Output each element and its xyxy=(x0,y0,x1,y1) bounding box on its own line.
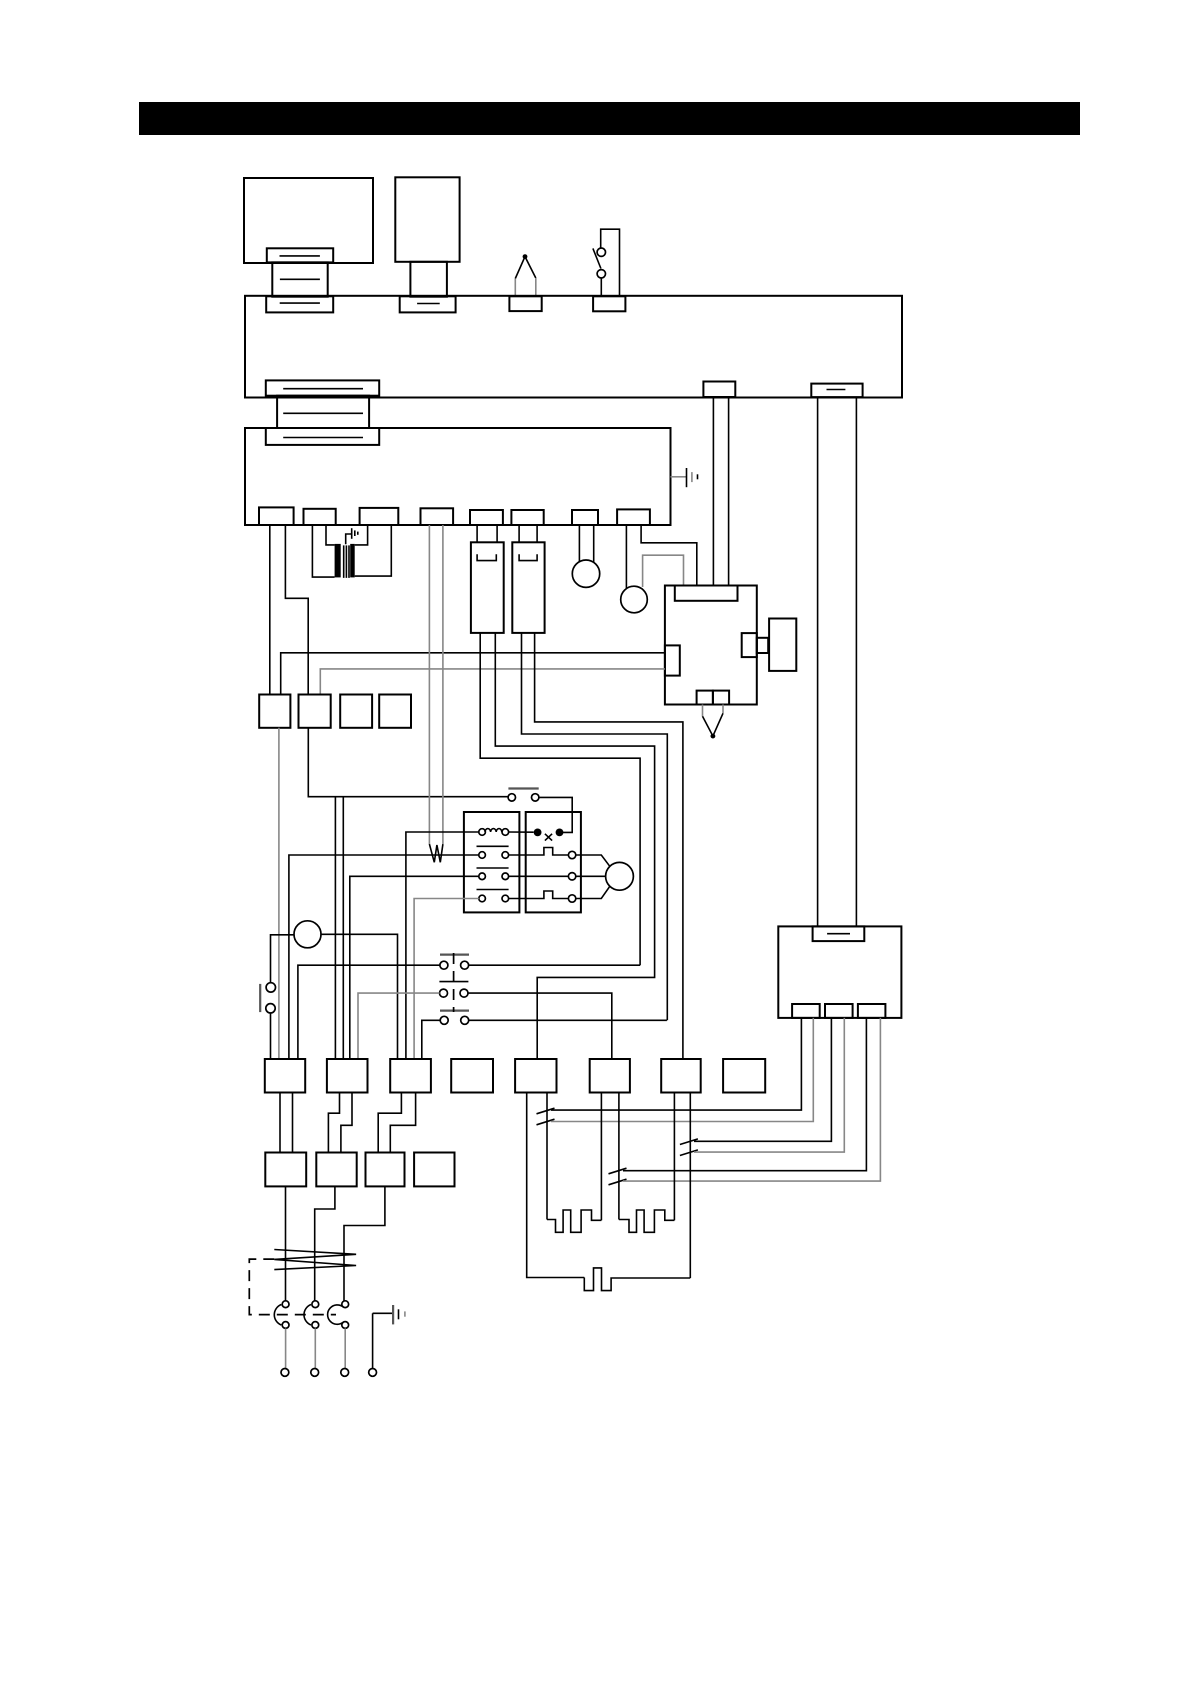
control box RB xyxy=(778,926,901,1018)
wire M3 to B3 a xyxy=(378,1093,401,1153)
harness1 bottom tab A xyxy=(703,382,735,398)
terminal box B4 xyxy=(414,1153,454,1187)
comb B xyxy=(619,1210,675,1232)
wire M6 right through splice s3 to comb B xyxy=(618,1093,620,1220)
contactor box K2 xyxy=(509,812,581,912)
wire B3 to breaker pole3 xyxy=(344,1186,385,1300)
terminal box M6 xyxy=(590,1059,630,1093)
fuse F1 xyxy=(471,525,504,633)
connector CN-B stem and tab xyxy=(400,262,456,313)
splice s3 xyxy=(609,1018,881,1185)
wire branch to M2 b xyxy=(342,797,344,1059)
wire J1 to M1 xyxy=(278,728,280,1059)
wire M5 left to comb C xyxy=(527,1093,585,1278)
terminal box M3 xyxy=(390,1059,431,1093)
terminal box B1 xyxy=(265,1153,306,1187)
comb A xyxy=(547,1210,601,1232)
breaker thermal zigzag xyxy=(274,1250,356,1270)
junction box J3 xyxy=(340,695,372,728)
wire row2 to M2 xyxy=(350,876,479,1059)
box B: control unit xyxy=(395,177,459,261)
connector CN-C stack between harness boxes xyxy=(266,380,379,445)
harness1 bottom tab B xyxy=(811,384,862,398)
box A: display unit xyxy=(244,178,373,263)
wire M1 to B1 a xyxy=(279,1093,281,1153)
terminal box M2 xyxy=(327,1059,368,1093)
terminal box B2 xyxy=(316,1153,356,1187)
wire harness1 tabB to right box xyxy=(817,398,819,927)
main harness box 1 xyxy=(245,296,902,398)
splice s1 xyxy=(537,1018,814,1125)
wire comb A to M6 left xyxy=(600,1093,602,1221)
wire row3 to M3 xyxy=(414,899,479,1060)
SW2 dashed link xyxy=(453,953,455,1012)
push switch PS1 xyxy=(260,983,275,1059)
heater wires from t4 with element W xyxy=(429,525,443,862)
wire M7 right through splice s2 to comb C xyxy=(689,1093,691,1279)
junction box J2 xyxy=(299,695,331,728)
wire coil to M3 xyxy=(406,832,479,1059)
wire harness1 tabA to relay xyxy=(712,398,714,587)
terminal box B3 xyxy=(366,1153,405,1187)
switch SW1 xyxy=(593,229,625,311)
terminal box M5 xyxy=(515,1059,556,1093)
wire comb B to M7 left xyxy=(673,1093,675,1221)
door switch SW2 row1 xyxy=(298,955,640,1059)
sensor probe TH xyxy=(509,254,541,311)
wire M3 to B3 b xyxy=(390,1093,415,1153)
lamp L1 xyxy=(572,525,599,587)
wire branch to M2 a xyxy=(334,797,336,1059)
ground G2 (transformer shield) xyxy=(346,528,358,544)
breaker pole 3 xyxy=(328,1301,349,1377)
fan motor FM xyxy=(271,921,398,1059)
terminal box M1 xyxy=(265,1059,305,1093)
breaker dashed enclosure xyxy=(249,1259,336,1315)
wire t1 to box J1 xyxy=(269,525,271,695)
wire t1 to box J2 xyxy=(285,525,308,695)
wire J2 to thermostat xyxy=(308,728,508,797)
relay unit R1 xyxy=(665,586,796,705)
ground G1 xyxy=(671,468,698,487)
splice s2 xyxy=(680,1018,844,1156)
wire M2 to B2 b xyxy=(341,1093,352,1153)
thermostat TH1 xyxy=(508,789,572,833)
terminal box M4 xyxy=(451,1059,493,1093)
breaker pole 1 xyxy=(274,1301,289,1377)
title bar xyxy=(139,102,1080,135)
wire B1 to breaker pole1 xyxy=(285,1186,287,1300)
wire M5 right through splice s1 to comb A xyxy=(546,1093,548,1220)
junction box J4 xyxy=(379,695,411,728)
breaker pole 2 xyxy=(304,1301,319,1377)
fuse wire w1 xyxy=(480,633,640,965)
fuse wire w2 xyxy=(495,633,654,1059)
fuse F2 xyxy=(512,525,544,633)
ground G3 xyxy=(373,1305,405,1324)
lamp L2 xyxy=(621,525,648,613)
wire L2 to relay top (path B) xyxy=(643,555,684,587)
neutral wire and terminal xyxy=(369,1313,377,1376)
wire row1 to M1 xyxy=(289,855,479,1059)
plug P1 below relay xyxy=(703,705,724,739)
fuse wire w4 xyxy=(535,633,683,1059)
wire t8 to relay top (path A) xyxy=(641,525,697,586)
relay coil box K1 xyxy=(464,812,520,912)
harness2 tabs t1-t8 xyxy=(259,507,294,525)
wire relay left tab line 1 xyxy=(281,653,665,695)
terminal box M8 xyxy=(723,1059,765,1093)
main harness box 2 xyxy=(245,428,671,525)
junction box J1 xyxy=(259,695,290,728)
wire B2 to breaker pole2 xyxy=(315,1186,335,1300)
door switch SW2 row2 xyxy=(358,982,612,1059)
connector CN-A stack under box A xyxy=(266,248,333,312)
comb C xyxy=(584,1268,690,1291)
wire M2 to B2 a xyxy=(328,1093,339,1153)
fuse wire w3 xyxy=(522,633,668,1020)
wire M1 to B1 b xyxy=(292,1093,294,1153)
terminal box M7 xyxy=(661,1059,701,1093)
transformer T1 xyxy=(312,525,391,578)
door switch SW2 row3 xyxy=(422,1011,667,1059)
compressor motor M xyxy=(576,855,634,899)
wire relay left tab line 2 xyxy=(320,669,665,695)
